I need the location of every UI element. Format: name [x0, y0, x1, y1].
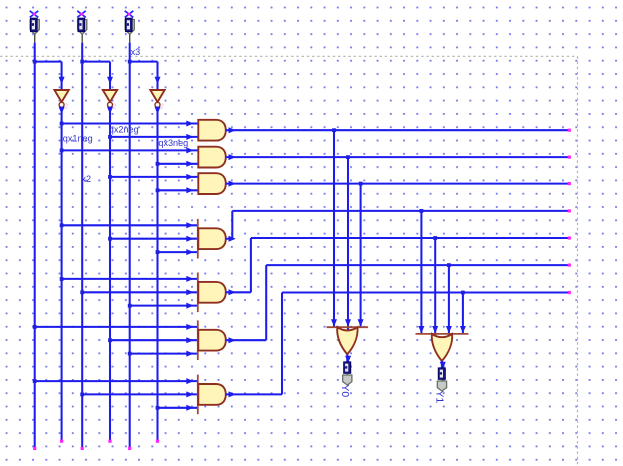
junction at G6 input 3 row start	[128, 352, 132, 356]
output buffer marker Y1	[438, 368, 445, 380]
junction at G6 input 1 row start	[33, 325, 37, 329]
junction on net x1 at branch	[33, 60, 37, 64]
AND gate G1	[198, 120, 226, 141]
output buffer marker Y0	[344, 362, 351, 374]
output pad terminal Y0	[343, 375, 352, 385]
pad link Y1	[441, 379, 443, 381]
junction at G5 input 2 row start	[80, 290, 84, 294]
OR gate OR1	[337, 327, 357, 354]
OR gate OR1 input bar	[327, 326, 369, 328]
junction on net x2 at branch	[80, 60, 84, 64]
AND gate G7	[197, 375, 199, 415]
junction at G6 input 2 row start	[108, 338, 112, 342]
svg-text:qx2neg: qx2neg	[109, 124, 139, 134]
wire G5 output riser and run to right	[226, 236, 571, 295]
wire to AND gate G6 input 3	[130, 351, 198, 357]
svg-text:2: 2	[64, 104, 68, 111]
junction at G3 input 2 row start	[156, 188, 160, 192]
wire G7 output down to OR2 input 4	[460, 293, 466, 334]
AND gate G2	[198, 147, 226, 168]
wire G2 output down to OR1 input 2	[345, 157, 351, 327]
svg-text:Y1: Y1	[434, 390, 446, 403]
wire to AND gate G1 input 1	[62, 121, 198, 127]
input pad terminal X1	[30, 11, 40, 43]
input pad terminal X2	[77, 11, 87, 43]
svg-text:Y0: Y0	[339, 384, 351, 397]
wire to AND gate G7 input 3	[158, 405, 198, 411]
wire net qx3neg vertical bus	[156, 107, 158, 442]
wire to AND gate G5 input 1	[62, 276, 198, 282]
junction at G2 input 2 row start	[156, 162, 160, 166]
wire net qx2neg vertical bus	[109, 107, 111, 442]
output pad terminal Y1	[437, 381, 446, 391]
junction at G5 input 1 row start	[60, 277, 64, 281]
OR gate OR2 input bar	[416, 333, 469, 335]
open end of net x2	[81, 447, 84, 450]
wire G7 output riser and run to right	[226, 291, 571, 398]
svg-text:2: 2	[113, 104, 117, 111]
wire OR2 inner input stubs	[435, 334, 449, 337]
wire to AND gate G5 input 2	[82, 289, 198, 295]
svg-text:qx1neg: qx1neg	[63, 134, 93, 144]
wire net qx1neg vertical bus	[61, 107, 63, 442]
wire branch x2 to inverter 2	[82, 62, 113, 90]
wire G4 output riser and run to right	[226, 209, 571, 241]
junction G6 output tap	[447, 263, 451, 267]
wire G3 output to right	[226, 181, 571, 187]
wire G3 output down to OR1 input 3	[358, 184, 364, 328]
junction G3 output tap	[359, 182, 363, 186]
inverter INV1	[54, 90, 68, 114]
wire net x1 vertical bus	[34, 43, 36, 449]
svg-text:x2: x2	[81, 174, 91, 184]
wire G2 output to right	[226, 154, 571, 160]
junction G7 output tap	[461, 291, 465, 295]
junction at G1 input 2 row start	[108, 135, 112, 139]
junction G4 output tap	[420, 209, 424, 213]
wire to AND gate G2 input 2	[158, 161, 198, 167]
AND gate G6	[197, 320, 199, 360]
junction G2 output tap	[346, 155, 350, 159]
wire net x2 vertical bus	[81, 43, 83, 449]
open end of net x1	[33, 447, 36, 450]
wire G1 output down to OR1 input 1	[331, 130, 337, 327]
wire G1 output to right	[226, 127, 571, 133]
wire G6 output down to OR2 input 3	[446, 265, 452, 334]
junction on net x3 at branch	[128, 60, 132, 64]
wire to AND gate G4 input 3	[158, 249, 198, 255]
wire G5 output down to OR2 input 2	[432, 238, 438, 334]
junction at G7 input 2 row start	[80, 393, 84, 397]
wire OR output to Y1 buffer	[440, 361, 446, 369]
svg-text:x3: x3	[131, 47, 141, 57]
wire to AND gate G4 input 2	[110, 236, 198, 242]
wire net x3 vertical bus	[129, 43, 131, 449]
junction G5 output tap	[433, 236, 437, 240]
junction at G5 input 3 row start	[128, 304, 132, 308]
AND gate G4	[197, 219, 199, 259]
wire to AND gate G7 input 1	[35, 378, 198, 384]
svg-text:qx3neg: qx3neg	[158, 138, 188, 148]
wire OR output to Y0 buffer	[345, 354, 351, 363]
svg-text:2: 2	[160, 104, 164, 111]
OR gate OR2	[432, 334, 452, 361]
inverter INV3	[150, 90, 164, 114]
wire to AND gate G2 input 1	[62, 147, 198, 153]
wire to AND gate G3 input 1	[110, 174, 198, 180]
wire to AND gate G6 input 1	[35, 324, 198, 330]
wire G6 output riser and run to right	[226, 264, 571, 344]
wire G4 output down to OR2 input 1	[418, 211, 424, 334]
junction at G7 input 1 row start	[33, 379, 37, 383]
junction G1 output tap	[332, 128, 336, 132]
AND gate G5	[197, 273, 199, 313]
open end of net qx3neg	[156, 440, 159, 443]
inverter INV2	[103, 90, 117, 114]
open end of net qx1neg	[60, 440, 63, 443]
wire to AND gate G3 input 2	[158, 187, 198, 193]
junction at G4 input 3 row start	[156, 250, 160, 254]
wire to AND gate G7 input 2	[82, 391, 198, 397]
wire branch x3 to inverter 3	[130, 62, 161, 90]
wire to AND gate G5 input 3	[130, 303, 198, 309]
AND gate G3	[198, 173, 226, 194]
wire to AND gate G6 input 2	[110, 337, 198, 343]
open end of net x3	[128, 447, 131, 450]
junction at G3 input 1 row start	[108, 175, 112, 179]
wire to AND gate G4 input 1	[62, 222, 198, 228]
pad link Y0	[346, 373, 348, 375]
open end of net qx2neg	[108, 440, 111, 443]
wire branch x1 to inverter 1	[35, 62, 65, 90]
junction at G4 input 2 row start	[108, 237, 112, 241]
junction at G4 input 1 row start	[60, 223, 64, 227]
wire OR1 middle input stub	[347, 327, 349, 331]
junction at G1 input 1 row start	[60, 122, 64, 126]
junction at G7 input 3 row start	[156, 406, 160, 410]
junction at G2 input 1 row start	[60, 149, 64, 153]
input pad terminal X3	[125, 11, 135, 43]
wire to AND gate G1 input 2	[110, 134, 198, 140]
